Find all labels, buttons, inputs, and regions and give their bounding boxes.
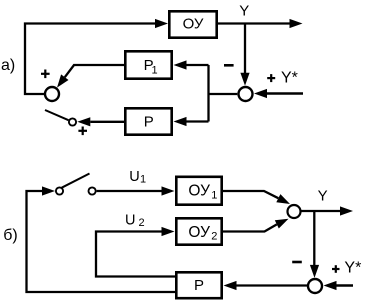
switch contact circle (a): [69, 118, 76, 125]
wire: summator to bus: [209, 93, 238, 95]
arrowhead ОУ2 into summator: [275, 219, 289, 229]
switch contact circle 2 (b): [89, 187, 96, 194]
wire: bottom summator to P input: [237, 284, 309, 286]
svg-text:2: 2: [139, 217, 145, 229]
arrowhead into summator right side: [254, 89, 267, 98]
label + Y* (b): [332, 268, 340, 270]
svg-text:ОУ: ОУ: [188, 224, 210, 241]
svg-text:Y*: Y*: [281, 69, 298, 86]
svg-text:ОУ: ОУ: [183, 16, 204, 33]
wire: junction drop to summator: [244, 24, 246, 74]
wire: reference input Y* (a): [267, 92, 303, 95]
label + at switch (a): [78, 130, 87, 132]
svg-text:U: U: [125, 212, 135, 228]
label minus (a): [224, 64, 234, 67]
svg-text:2: 2: [211, 230, 217, 242]
arrow into ОУ: [155, 19, 168, 28]
wire: junction drop to bottom summator: [313, 211, 315, 266]
svg-text:Y*: Y*: [344, 260, 361, 277]
wire: bus vertical: [207, 65, 209, 122]
arrowhead into ОУ2: [162, 227, 175, 236]
svg-text:б): б): [3, 227, 18, 244]
wire: ОУ2 output to summator: [223, 224, 277, 231]
arrowhead ОУ1 into summator: [276, 194, 290, 204]
switch blade (b): [62, 174, 90, 188]
wire: bus to P1: [187, 64, 209, 66]
svg-text:1: 1: [140, 174, 146, 186]
arrowhead into switch contact 1: [42, 186, 55, 195]
block ОУ (U1): [169, 11, 216, 37]
wire: ОУ output: [218, 22, 290, 24]
arrowhead Y output: [340, 206, 353, 215]
label + Y* (a): [267, 77, 275, 79]
block Р1: [125, 51, 171, 78]
arrowhead into left summator: [57, 74, 69, 87]
wire: P1 output to left summator: [65, 65, 124, 77]
arrowhead down into summator: [240, 73, 249, 86]
wire: ОУ1 output to summator: [223, 191, 278, 198]
summing junction (b top): [288, 205, 301, 218]
switch contact circle 1 (b): [56, 187, 63, 194]
switch blade (a): [45, 110, 69, 120]
block ОУ1: [176, 177, 221, 205]
block ОУ2: [176, 218, 221, 244]
wire: P output to switch: [90, 121, 124, 123]
arrowhead into ОУ1: [162, 186, 175, 195]
arrowhead into P: [174, 117, 187, 126]
wire: left feedback from summator to ОУ input: [25, 24, 156, 95]
wire: reference input Y* (b): [337, 284, 354, 287]
wire: bus to P: [187, 120, 209, 122]
arrowhead down into bottom summator: [310, 265, 319, 278]
arrowhead output: [290, 19, 303, 28]
summing junction left (a): [45, 87, 59, 101]
svg-text:Р: Р: [194, 277, 204, 294]
summing junction right (a): [239, 87, 253, 101]
svg-text:Y: Y: [318, 188, 328, 205]
block Р (a): [125, 108, 171, 134]
arrowhead into switch contact: [77, 117, 90, 126]
svg-text:U: U: [129, 169, 139, 185]
svg-text:1: 1: [152, 65, 158, 77]
wire: lower feedback P to switch: [27, 191, 176, 292]
summing junction (b bottom): [308, 279, 322, 293]
svg-text:1: 1: [211, 189, 217, 201]
wire: Y output (b): [301, 210, 341, 212]
label minus (b): [292, 261, 302, 264]
svg-text:ОУ: ОУ: [188, 183, 210, 200]
label + at left summator: [41, 73, 50, 75]
svg-text:а): а): [1, 57, 15, 74]
arrowhead into bottom summator right: [324, 281, 337, 290]
block Р (b): [176, 272, 221, 298]
arrowhead into P (b): [224, 281, 237, 290]
wire: switch to ОУ1: [97, 190, 162, 192]
svg-text:Y: Y: [239, 3, 249, 20]
arrowhead into P1: [174, 60, 187, 69]
wire: upper feedback P to ОУ2 input: [96, 232, 175, 277]
svg-text:Р: Р: [144, 114, 154, 131]
